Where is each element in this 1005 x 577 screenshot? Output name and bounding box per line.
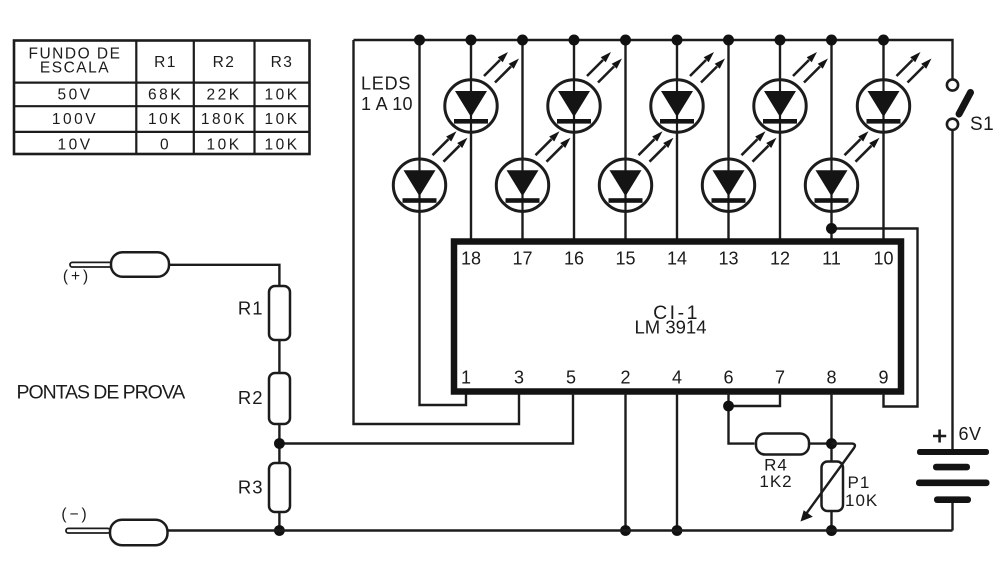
wire: P1 wiper arm (806, 444, 855, 514)
junction dot pin4 on bus (672, 525, 683, 536)
wire: pin 2 to ground bus (624, 393, 626, 531)
probe (-) body (110, 520, 168, 546)
svg-text:10K: 10K (264, 87, 299, 104)
wire: LED4 column to pin 16 (573, 40, 575, 240)
svg-text:68K: 68K (148, 87, 183, 104)
svg-text:10K: 10K (264, 137, 299, 154)
wire: R3 to ground bus (278, 512, 280, 531)
svg-text:(+): (+) (63, 268, 91, 285)
svg-text:5: 5 (566, 368, 576, 388)
svg-text:PONTAS DE PROVA: PONTAS DE PROVA (17, 382, 186, 404)
wire: battery negative to ground bus (951, 503, 953, 531)
table row 100V (52, 111, 300, 128)
svg-text:14: 14 (667, 249, 687, 269)
wire: LED3 column to pin 17 (521, 40, 523, 240)
svg-text:15: 15 (615, 249, 635, 269)
junction dot pin 11 column (826, 223, 837, 234)
table header R1 R2 R3 (154, 54, 293, 71)
wire: LED9 column to pin 11 (830, 40, 832, 240)
junction dot bus col3 (517, 35, 528, 46)
resistor R1 (269, 286, 290, 340)
LED 2 (445, 52, 519, 133)
svg-text:10K: 10K (264, 111, 299, 128)
label LEDS 1 A 10 (361, 74, 413, 115)
LED 3 (496, 131, 570, 212)
svg-text:6V: 6V (959, 424, 982, 444)
op-amp U1: IC CI-1 LM3914 body (454, 242, 901, 392)
svg-text:9: 9 (878, 368, 888, 388)
probe (-) tip (66, 528, 110, 533)
wire: pin 9 loop to pin 11 node (832, 229, 918, 407)
svg-text:10V: 10V (57, 137, 92, 154)
svg-text:4: 4 (672, 368, 682, 388)
svg-text:P1: P1 (848, 473, 871, 492)
LED 1 (393, 131, 467, 212)
wire: LED2 column to pin 18 (470, 40, 472, 240)
svg-text:10K: 10K (206, 137, 241, 154)
table row 50V (57, 87, 299, 104)
wire: LED7 column to pin 13 (727, 40, 729, 240)
junction dot bus col1 (414, 35, 425, 46)
wire: R2 to R3 through junction (278, 424, 280, 464)
LED 5 (599, 131, 673, 212)
svg-text:8: 8 (826, 368, 836, 388)
svg-text:7: 7 (775, 368, 785, 388)
svg-text:10: 10 (873, 249, 893, 269)
svg-text:11: 11 (822, 249, 841, 269)
wire: pin 8 down to P1 (830, 393, 832, 462)
probe (+) body (111, 252, 169, 276)
wire: LED1 column to pin 1 jog (420, 40, 467, 405)
svg-text:12: 12 (770, 249, 790, 269)
LED 9 (805, 131, 879, 212)
svg-text:0: 0 (160, 137, 171, 154)
switch S1 (947, 79, 971, 130)
LED 4 (548, 52, 622, 133)
svg-text:2: 2 (620, 368, 630, 388)
svg-text:16: 16 (564, 249, 584, 269)
junction dot bus col4 (569, 35, 580, 46)
svg-text:50V: 50V (57, 87, 92, 104)
wire: LED6 column to pin 14 (676, 40, 678, 240)
svg-text:1K2: 1K2 (759, 472, 792, 491)
resistor R3 (269, 463, 290, 512)
P1 wiper arrowhead (801, 510, 813, 521)
svg-text:22K: 22K (206, 87, 241, 104)
resistor R2 (269, 373, 290, 424)
junction dot bus col2 (466, 35, 477, 46)
LED 10 (857, 52, 931, 133)
wire: pin 6 down to R4 (729, 393, 755, 444)
svg-text:R1: R1 (154, 54, 177, 71)
junction dot bus col7 (723, 35, 734, 46)
wire: pin 3 net (left boundary down to pin 3) (354, 40, 520, 424)
junction dot pin2 on bus (620, 525, 631, 536)
wire: S1 to battery positive (951, 130, 953, 449)
wire: R4 to pin 8 node (809, 442, 832, 444)
LED 6 (651, 52, 725, 133)
wire: probe (+) to R1 (169, 265, 279, 287)
junction dot bus col8 (775, 35, 786, 46)
wire: pin 5 to divider junction (279, 393, 573, 444)
junction dot bus col6 (672, 35, 683, 46)
junction dot divider tap (274, 438, 285, 449)
svg-text:10K: 10K (148, 111, 183, 128)
junction dot R4/P1 wiper (826, 438, 837, 449)
svg-text:S1: S1 (970, 114, 994, 135)
value table frame (14, 41, 310, 155)
svg-text:180K: 180K (201, 111, 247, 128)
svg-text:1: 1 (461, 368, 471, 388)
junction dot P1 bottom (826, 525, 837, 536)
wire: LED8 column to pin 12 (779, 40, 781, 240)
wire: LED5 column to pin 15 (624, 40, 626, 240)
wire: pin 4 to ground bus (676, 393, 678, 531)
label + (battery) (933, 430, 946, 443)
svg-text:(−): (−) (61, 506, 89, 523)
svg-text:R3: R3 (271, 54, 294, 71)
svg-text:LEDS: LEDS (361, 74, 411, 94)
svg-text:R3: R3 (238, 477, 264, 498)
junction dot pin6 (723, 401, 734, 412)
probe (+) tip (70, 262, 113, 267)
junction dot bus col9 (826, 35, 837, 46)
svg-text:17: 17 (512, 249, 532, 269)
junction dot R3 bottom (274, 525, 285, 536)
svg-text:ESCALA: ESCALA (40, 60, 110, 77)
potentiometer P1 (822, 462, 844, 512)
battery B1 6V (916, 449, 990, 503)
svg-text:100V: 100V (52, 111, 98, 128)
LED 8 (754, 52, 828, 133)
wire: R1 to R2 (278, 340, 280, 374)
svg-text:18: 18 (461, 249, 481, 269)
wire: P1 bottom to ground bus (830, 511, 832, 531)
svg-text:10K: 10K (845, 491, 878, 510)
svg-text:R1: R1 (238, 298, 264, 319)
svg-text:LM 3914: LM 3914 (635, 317, 707, 338)
wire: pin 6 to pin 7 link (729, 393, 781, 406)
svg-text:13: 13 (718, 249, 738, 269)
svg-text:3: 3 (514, 368, 524, 388)
table row 10V (57, 137, 299, 154)
junction dot bus col10 (878, 35, 889, 46)
svg-text:6: 6 (723, 368, 733, 388)
svg-text:R2: R2 (238, 387, 264, 408)
wire: LED10 column to pin 10 (882, 40, 884, 240)
wire: top supply bus to S1 (354, 40, 953, 79)
junction dot bus col5 (620, 35, 631, 46)
table header FUNDO DE ESCALA (29, 46, 122, 77)
svg-text:1 A 10: 1 A 10 (361, 94, 413, 114)
LED 7 (702, 131, 776, 212)
resistor R4 (756, 434, 809, 455)
svg-text:R2: R2 (213, 54, 236, 71)
wire: ground bus (168, 529, 953, 531)
